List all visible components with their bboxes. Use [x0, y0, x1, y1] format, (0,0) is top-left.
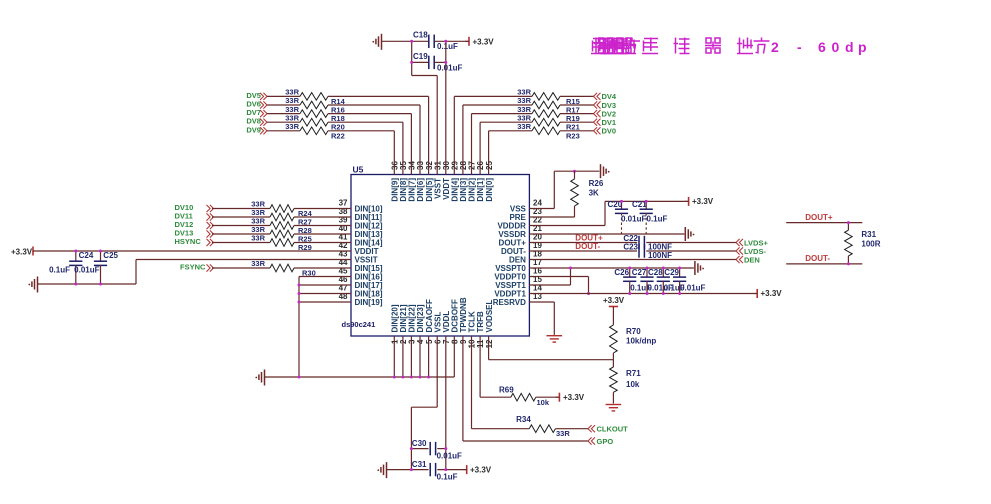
svg-text:C19: C19	[413, 52, 428, 61]
svg-text:33R: 33R	[251, 259, 265, 268]
junction at C19 branch	[410, 40, 413, 43]
port LVDS+	[736, 238, 768, 247]
wire R27 to U5 pin 38	[294, 216, 351, 218]
resistor R29 33R	[251, 234, 312, 252]
wire U5 pin 15 VSSPT1	[529, 284, 570, 286]
wire U5 pin 17 VSSPT0 to ground	[529, 267, 694, 269]
wire DV11 to resistor	[212, 216, 270, 218]
junction bus pin48	[298, 301, 301, 304]
junction C25 top	[99, 250, 102, 253]
svg-text:DIN[19]: DIN[19]	[355, 298, 383, 307]
svg-text:R69: R69	[499, 386, 514, 395]
ground symbol above R26	[601, 164, 610, 178]
svg-text:FSYNC: FSYNC	[180, 263, 206, 272]
power +3.3V at C20 C21	[685, 197, 714, 206]
svg-text:25: 25	[485, 161, 494, 170]
svg-text:0.1uF: 0.1uF	[437, 42, 458, 51]
svg-text:HSYNC: HSYNC	[175, 237, 202, 246]
wire DV7 to resistor	[267, 113, 300, 115]
power +3.3V at R70	[603, 296, 625, 317]
resistor R21 33R	[517, 113, 580, 131]
junction C28 bottom	[662, 292, 665, 295]
svg-text:GPO: GPO	[597, 437, 614, 446]
ground symbol bottom-left	[255, 370, 264, 386]
junction pin 3	[410, 376, 413, 379]
wire U5 pin 12 to R70 R71 node	[489, 336, 614, 360]
wire C22 to LVDS+	[646, 242, 736, 244]
svg-text:C30: C30	[412, 439, 427, 448]
junction C26 bottom	[628, 292, 631, 295]
junction C29 top	[678, 267, 681, 270]
wire U5 pin 28 to resistor	[463, 105, 532, 175]
resistor R20 33R	[285, 113, 345, 131]
ground symbol under R71	[606, 405, 622, 411]
svg-text:10k/dnp: 10k/dnp	[626, 337, 656, 346]
wire R24 to U5 pin 37	[294, 208, 351, 210]
wire U5 pin 1 to ground	[393, 336, 395, 377]
wire DV10 to resistor	[212, 208, 270, 210]
svg-text:0.01uF: 0.01uF	[437, 64, 462, 73]
port DV1	[594, 118, 617, 127]
ground symbol left of C24	[28, 277, 37, 293]
junction C21 top	[645, 200, 648, 203]
svg-text:R23: R23	[566, 131, 580, 140]
wire R16 to U5 pin 33	[328, 105, 420, 175]
junction C30 right	[444, 447, 447, 450]
resistor R31 100R	[845, 223, 881, 264]
svg-text:VODSEL: VODSEL	[485, 299, 494, 332]
capacitor C25 0.01uF	[74, 251, 118, 284]
junction C25 bottom	[99, 283, 102, 286]
U5 right pin names and numbers 24-13	[493, 198, 543, 306]
svg-text:DOUT-: DOUT-	[805, 254, 830, 263]
wire U5 pin 22 VDDDR to C20 C21 rail	[529, 201, 688, 225]
wire C23 to LVDS-	[646, 250, 736, 252]
svg-text:0.01uF: 0.01uF	[437, 452, 462, 461]
wire U5 pin 16 VDDPT0	[529, 277, 588, 294]
svg-text:C29: C29	[664, 268, 679, 277]
wire U5 pin 27 to resistor	[472, 114, 533, 175]
wire resistor to DV2	[560, 113, 594, 115]
capacitor C18 0.1uF	[413, 31, 458, 52]
wire R25 to U5 pin 40	[294, 233, 351, 235]
wire R29 to U5 pin 41	[294, 242, 351, 244]
wire U5 pin 8 to ground	[453, 336, 455, 377]
svg-text:R26: R26	[589, 179, 604, 188]
junction R31 top	[847, 221, 850, 224]
resistor R23 33R	[517, 122, 580, 140]
wire U5 pin 2 to ground	[402, 336, 404, 377]
wire FSYNC to R30	[212, 267, 270, 269]
resistor R28 33R	[251, 217, 312, 235]
junction C26 top	[628, 267, 631, 270]
resistor R17 33R	[517, 96, 580, 114]
resistor R30 33R	[251, 259, 316, 277]
capacitor C31 0.1uF	[411, 460, 466, 482]
wire U5 pin 26 to resistor	[480, 122, 532, 174]
svg-text:ds90c241: ds90c241	[342, 320, 376, 329]
junction C30 left	[410, 447, 413, 450]
wire resistor to DV4	[560, 95, 594, 97]
wire DV8 to resistor	[267, 121, 300, 123]
junction R31 bottom	[847, 262, 850, 265]
svg-text:R71: R71	[626, 369, 641, 378]
svg-text:12: 12	[485, 339, 494, 348]
svg-text:0.01uF: 0.01uF	[680, 284, 705, 293]
wire R30 to U5 pin 44	[294, 267, 351, 269]
wire U5 pin 19 DOUT- to C23	[529, 242, 637, 251]
svg-text:DIN[0]: DIN[0]	[485, 178, 494, 202]
wire VDDT vertical pin30	[445, 41, 447, 174]
svg-text:DEN: DEN	[744, 255, 760, 264]
resistor R26 3K	[571, 171, 604, 217]
wire DV13 to resistor	[212, 233, 270, 235]
svg-text:+3.3V: +3.3V	[692, 197, 714, 206]
wire ground to C18	[382, 40, 429, 42]
svg-text:+3.3V: +3.3V	[470, 466, 492, 475]
U5 bottom pin names and numbers 1-12	[391, 297, 494, 348]
wire U5 pin 10 to R34	[472, 336, 530, 429]
wire U5 pin 11 to R69	[480, 336, 511, 397]
wire resistor to DV3	[560, 104, 594, 106]
wire HSYNC to resistor	[212, 242, 270, 244]
wire DV9 to resistor	[267, 130, 300, 132]
port DV7	[246, 108, 267, 117]
U5 top pin names and numbers 36-25	[391, 161, 494, 202]
wire down to C19 row	[412, 41, 429, 62]
svg-text:CLKOUT: CLKOUT	[597, 425, 629, 434]
ground wire under C24 C25 up to U5 pin 43	[38, 260, 352, 285]
junction tie at pin14	[587, 292, 590, 295]
capacitor C29 0.01uF	[664, 268, 705, 294]
resistor R25 33R	[251, 225, 312, 243]
svg-text:100R: 100R	[861, 240, 880, 249]
ground symbol at VSSPT0	[695, 261, 704, 275]
port HSYNC	[175, 237, 214, 246]
svg-text:p: p	[858, 39, 867, 55]
wire U5 pin 20 DOUT+ to C22	[529, 233, 637, 242]
junction C24 top	[74, 250, 77, 253]
port DV5	[246, 91, 267, 100]
ground symbol top-left of C18	[372, 34, 381, 50]
wire U5 pin 9 to GPO	[463, 336, 588, 441]
resistor R69 10k	[499, 386, 550, 408]
junction at VDDT branch	[444, 40, 447, 43]
svg-text:R34: R34	[516, 415, 531, 424]
wire +3.3V rail to U5 pin 42	[33, 250, 351, 252]
svg-text:10k: 10k	[626, 380, 640, 389]
resistor R24 33R	[251, 200, 312, 218]
svg-text:+3.3V: +3.3V	[11, 248, 33, 257]
wire DOUT- far right	[786, 254, 862, 264]
svg-text:R31: R31	[861, 230, 876, 239]
power +3.3V at C31	[463, 465, 492, 474]
wire resistor to DV1	[560, 121, 594, 123]
wire DV6 to resistor	[267, 104, 300, 106]
svg-text:C24: C24	[79, 251, 94, 260]
svg-text:0: 0	[832, 39, 840, 55]
wire R28 to U5 pin 39	[294, 225, 351, 227]
junction pin 5	[427, 376, 430, 379]
port LVDS-	[736, 247, 766, 256]
wire U5 pin 24 VSS to ground	[529, 171, 599, 208]
capacitor C30 0.01uF	[411, 439, 462, 461]
resistor R27 33R	[251, 208, 312, 226]
svg-text:100NF: 100NF	[648, 251, 672, 260]
capacitor C27 0.01uF	[632, 268, 673, 294]
svg-text:33R: 33R	[517, 122, 531, 131]
power +3.3V right rail	[753, 289, 782, 298]
junction C20 top	[620, 200, 623, 203]
resistor R18 33R	[285, 105, 345, 123]
svg-text:+3.3V: +3.3V	[563, 393, 585, 402]
junction at C19 left	[410, 61, 413, 64]
wire R14 to U5 pin 32	[328, 96, 429, 174]
junction C27 top	[646, 267, 649, 270]
ground wire to bottom pins 1-8	[265, 376, 455, 378]
wire R69 to +3.3V	[536, 396, 560, 398]
port DV13	[175, 229, 214, 238]
port FSYNC	[180, 263, 214, 272]
port DV2	[594, 109, 617, 118]
svg-text:RESRVD: RESRVD	[493, 298, 526, 307]
svg-text:0.1uF: 0.1uF	[647, 215, 668, 224]
junction pin 2	[401, 376, 404, 379]
capacitor C20 0.01uF	[608, 200, 647, 234]
capacitor C21 0.1uF	[632, 200, 668, 234]
svg-text:DOUT-: DOUT-	[575, 242, 600, 251]
svg-text:-: -	[797, 39, 802, 55]
op-amp U5 ds90c241 chip body	[342, 165, 530, 337]
svg-text:R22: R22	[331, 131, 345, 140]
svg-text:+3.3V: +3.3V	[603, 296, 625, 305]
port DV0	[594, 127, 617, 136]
svg-text:d: d	[845, 39, 854, 55]
svg-text:6: 6	[818, 39, 826, 55]
ground symbol at VSSDR	[685, 227, 694, 241]
resistor R22 33R	[285, 122, 345, 140]
svg-text:10k: 10k	[537, 398, 550, 407]
junction bus pin46	[298, 284, 301, 287]
svg-text:33R: 33R	[556, 429, 570, 438]
wire R20 to U5 pin 35	[328, 122, 403, 174]
junction pin 1	[393, 376, 396, 379]
wire ground to VSST pin31	[412, 62, 438, 174]
wire U5 pin 5 to ground	[428, 336, 430, 377]
junction pin 4	[419, 376, 422, 379]
svg-text:C27: C27	[632, 268, 647, 277]
wire C18 to +3.3V	[435, 40, 469, 42]
junction C29 bottom	[678, 292, 681, 295]
capacitor C26 0.1uF	[614, 268, 651, 294]
svg-text:DV9: DV9	[246, 125, 261, 134]
wire C19 to pin30 vertical	[435, 61, 446, 63]
svg-text:C31: C31	[412, 460, 427, 469]
svg-text:C23: C23	[623, 243, 638, 252]
port DV12	[175, 220, 214, 229]
junction C31 left	[410, 468, 413, 471]
resistor R15 33R	[517, 88, 580, 106]
svg-text:0.1uF: 0.1uF	[49, 266, 70, 275]
power +3.3V top	[465, 37, 494, 47]
wire U5 pin 14 VDDPT1 rail to +3.3V	[529, 293, 757, 295]
svg-text:U5: U5	[353, 165, 364, 175]
svg-text:0.01uF: 0.01uF	[74, 266, 99, 275]
svg-text:0.1uF: 0.1uF	[437, 473, 458, 482]
port CLKOUT	[588, 425, 628, 434]
junction C31 right	[444, 468, 447, 471]
resistor R14 33R	[285, 88, 345, 106]
port DV6	[246, 100, 267, 109]
port DV11	[175, 212, 214, 221]
capacitor C23 100NF	[623, 243, 672, 261]
wire U5 pin 4 to ground	[419, 336, 421, 377]
svg-text:33R: 33R	[285, 122, 299, 131]
wire DV5 to resistor	[267, 95, 300, 97]
wire U5 pin 7 down	[445, 336, 447, 470]
wire DV12 to resistor	[212, 225, 270, 227]
svg-text:3K: 3K	[589, 189, 599, 198]
wire U5 pin 25 to resistor	[489, 131, 532, 175]
capacitor C19 0.01uF	[413, 52, 462, 73]
port DV3	[594, 101, 617, 110]
junction C28 top	[662, 267, 665, 270]
wire DOUT+ far right	[786, 213, 862, 223]
junction at C19 right	[444, 61, 447, 64]
U5 left pin names and numbers 37-48	[339, 198, 383, 306]
capacitor C24 0.1uF	[49, 251, 94, 284]
ground symbol left of C31	[377, 462, 411, 478]
port DV10	[175, 203, 214, 212]
junction bus pin47	[298, 292, 301, 295]
port DV9	[246, 125, 267, 134]
svg-text:DOUT+: DOUT+	[805, 213, 833, 222]
junction C27 bottom	[646, 292, 649, 295]
wire R22 to U5 pin 36	[328, 131, 394, 175]
wire U5 pin 3 to ground	[410, 336, 412, 377]
port DEN	[736, 255, 760, 264]
svg-text:C26: C26	[614, 268, 629, 277]
svg-text:C18: C18	[413, 31, 428, 40]
power +3.3V left rail	[11, 247, 33, 257]
svg-text:C28: C28	[648, 268, 663, 277]
resistor R19 33R	[517, 105, 580, 123]
port DV4	[594, 92, 617, 101]
resistor R71 10k	[610, 360, 642, 404]
wire resistor to DV0	[560, 130, 594, 132]
resistor R70 10k/dnp	[610, 317, 657, 360]
port DV8	[246, 117, 267, 126]
svg-text:DV0: DV0	[602, 127, 617, 136]
wire U5 pin 21 VSSDR to ground	[529, 233, 684, 235]
wire U5 pin 29 to resistor	[454, 96, 532, 174]
wire bus U5 pins 45-48	[299, 277, 351, 378]
title text block (magenta)	[591, 38, 867, 56]
svg-text:2: 2	[771, 39, 779, 55]
svg-text:+3.3V: +3.3V	[473, 38, 495, 47]
port GPO	[588, 437, 613, 446]
capacitor C22 100NF	[623, 234, 672, 252]
wire U5 pin 23 PRE to R26	[529, 216, 574, 218]
junction bus to ground	[298, 376, 301, 379]
svg-text:+3.3V: +3.3V	[761, 289, 783, 298]
wire U5 pin 18 DEN to port	[529, 259, 736, 261]
svg-text:C25: C25	[103, 251, 118, 260]
wire U5 pin 13 RESRVD to ground	[529, 302, 554, 335]
wire R18 to U5 pin 34	[328, 114, 411, 175]
wire tie pin17 to pin15	[570, 268, 572, 285]
svg-text:33R: 33R	[251, 234, 265, 243]
junction C24 bottom	[74, 283, 77, 286]
junction R26 top	[573, 170, 576, 173]
junction tie at pin17	[569, 267, 572, 270]
resistor R16 33R	[285, 96, 345, 114]
wire U5 pin 6 to caps	[411, 336, 437, 470]
wire R34 to CLKOUT	[555, 428, 588, 430]
svg-text:0.01uF: 0.01uF	[621, 215, 646, 224]
capacitor C28 0.1uF	[648, 268, 685, 294]
resistor R34 33R	[516, 415, 570, 438]
ground symbol under RESRVD	[547, 336, 563, 342]
power +3.3V at R69	[555, 393, 584, 402]
svg-text:R70: R70	[626, 327, 641, 336]
